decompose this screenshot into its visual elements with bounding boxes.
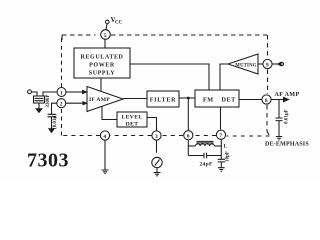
svg-text:9: 9	[266, 62, 269, 68]
svg-text:7303: 7303	[27, 150, 69, 172]
wire input to ceramic filter	[31, 92, 37, 96]
svg-text:DET: DET	[126, 122, 139, 128]
wire FILTER to FM DET	[179, 97, 195, 99]
tuning meter	[152, 157, 162, 167]
wire pin 8 to AF AMP	[272, 99, 285, 101]
muting wire to pin 9	[258, 63, 263, 65]
CF ground	[38, 103, 40, 109]
svg-text:4: 4	[103, 134, 106, 140]
pin 1	[57, 88, 66, 97]
quad coil L	[188, 145, 195, 147]
IC boundary dashed box: top edge	[62, 34, 96, 36]
Vcc terminal	[106, 20, 110, 24]
FM DET box	[195, 90, 239, 107]
wire pin5 to regulated supply	[104, 40, 106, 49]
svg-text:IF AMP: IF AMP	[89, 97, 110, 103]
wire muting in	[220, 64, 228, 90]
quad tank left leg	[187, 140, 189, 155]
wire pin1 to IF amp	[66, 91, 82, 93]
pin 7	[216, 130, 225, 139]
coil core	[197, 141, 214, 143]
svg-text:FILTER: FILTER	[150, 98, 177, 104]
LEVEL DET box	[117, 112, 147, 127]
wire pin3 to meter	[156, 141, 158, 153]
wire reg supply to FM DET	[130, 64, 209, 90]
svg-text:DET: DET	[222, 97, 237, 104]
IC boundary dashed box: left edge	[61, 108, 63, 136]
svg-text:6: 6	[187, 134, 190, 140]
svg-text:SUPPLY: SUPPLY	[89, 71, 115, 77]
FILTER box	[147, 91, 179, 107]
svg-text:(0.01μ): (0.01μ)	[53, 114, 58, 129]
svg-text:CC: CC	[115, 21, 123, 26]
svg-text:L: L	[224, 144, 228, 150]
capacitor 3300P / 0.01u chain on pin 2	[52, 103, 57, 114]
wire IF amp to LEVEL DET	[102, 106, 117, 120]
svg-text:1: 1	[60, 90, 63, 96]
svg-text:3300P: 3300P	[46, 94, 51, 107]
svg-text:LEVEL: LEVEL	[122, 115, 143, 121]
de-emphasis branch	[278, 100, 280, 118]
MUTING triangle	[228, 54, 258, 74]
pin 4 ground	[104, 141, 106, 171]
wire IF amp to FILTER	[123, 98, 147, 100]
svg-text:7: 7	[219, 133, 222, 139]
svg-text:8: 8	[265, 98, 268, 104]
regulated power supply box	[74, 48, 130, 78]
tank ground	[218, 168, 225, 172]
tank capacitor to ground	[218, 159, 225, 162]
meter ground	[156, 168, 158, 173]
IC boundary dashed box: bottom edge	[227, 135, 270, 137]
svg-text:3: 3	[155, 134, 158, 140]
muting external terminal	[273, 63, 279, 65]
pin 3	[152, 131, 161, 140]
wire FM DET bottom to pin 7	[220, 107, 222, 130]
IC boundary dashed box: right edge	[267, 35, 269, 59]
pin 6	[184, 131, 193, 140]
pin 4	[100, 131, 109, 140]
quad tank right leg	[220, 140, 222, 159]
pin 9	[263, 59, 272, 68]
svg-text:AF AMP: AF AMP	[275, 92, 300, 98]
wire reg supply down to IF amp	[100, 78, 102, 93]
wire CF to pin 1	[43, 92, 57, 96]
wire pin2 to IF amp	[66, 102, 83, 104]
wire FM DET to pin 8	[239, 99, 262, 101]
svg-text:MUTING: MUTING	[235, 63, 257, 68]
svg-text:FM: FM	[203, 97, 214, 104]
ceramic filter CF	[34, 96, 45, 103]
svg-text:24pF: 24pF	[200, 162, 213, 168]
pin 2	[57, 99, 66, 108]
input terminal	[28, 90, 32, 94]
de-emphasis capacitor 0.01uF	[276, 118, 283, 121]
pin 5	[101, 30, 111, 40]
24pF capacitor branch	[188, 155, 221, 157]
de-emphasis ground	[276, 137, 282, 141]
svg-text:0.01μF: 0.01μF	[285, 109, 290, 124]
junction node pin6	[187, 97, 190, 100]
svg-text:5: 5	[104, 33, 107, 39]
wire LEVEL DET to pin 3	[147, 118, 157, 131]
svg-text:DE-EMPHASIS: DE-EMPHASIS	[265, 142, 309, 148]
IF AMP triangle	[87, 87, 123, 112]
svg-text:POWER: POWER	[89, 63, 115, 69]
svg-text:REGULATED: REGULATED	[81, 55, 124, 61]
wire junction down to pin 6	[187, 98, 189, 130]
pin 8	[262, 95, 271, 104]
svg-text:2: 2	[60, 102, 63, 108]
svg-text:10pF: 10pF	[226, 151, 231, 162]
